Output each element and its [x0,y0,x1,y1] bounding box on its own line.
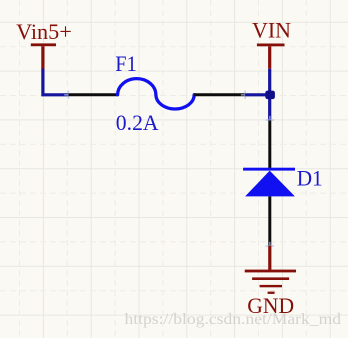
fuse F1 body [118,79,195,109]
ground bar 3 [260,285,282,287]
wire from Vin5+ to fuse [43,69,69,95]
ground stem [268,246,271,270]
pin hotspot marker above D1 [266,116,274,124]
wire from fuse to VIN node [245,93,270,96]
ground bar 2 [252,277,289,280]
wire VIN vertical through junction [268,69,271,121]
svg-text:https://blog.csdn.net/Mark_md: https://blog.csdn.net/Mark_md [125,311,342,328]
svg-text:Vin5+: Vin5+ [16,19,72,44]
svg-text:VIN: VIN [252,17,291,42]
svg-text:F1: F1 [115,51,137,76]
diode D1 pin 2 (bottom) [268,196,271,245]
fuse F1 pin 2 [194,93,245,96]
fuse F1 pin 1 [68,93,117,96]
svg-text:D1: D1 [297,165,323,190]
power port Vin5+ bar [31,43,56,46]
power port Vin5+ stem [41,46,44,69]
diode D1 pin 1 (top) [268,121,271,169]
pin hotspot marker right of F1 [241,91,249,99]
pin hotspot marker left of F1 [64,91,72,99]
svg-text:0.2A: 0.2A [116,110,159,135]
diode D1 cathode bar [243,168,295,171]
junction node at VIN [265,91,275,100]
ground bar 1 [245,270,296,273]
power port VIN bar [257,44,285,47]
pin hotspot marker at ground pin [266,242,274,250]
ground bar 4 [268,292,275,294]
diode D1 triangle [245,171,295,197]
power port VIN stem [268,46,271,69]
